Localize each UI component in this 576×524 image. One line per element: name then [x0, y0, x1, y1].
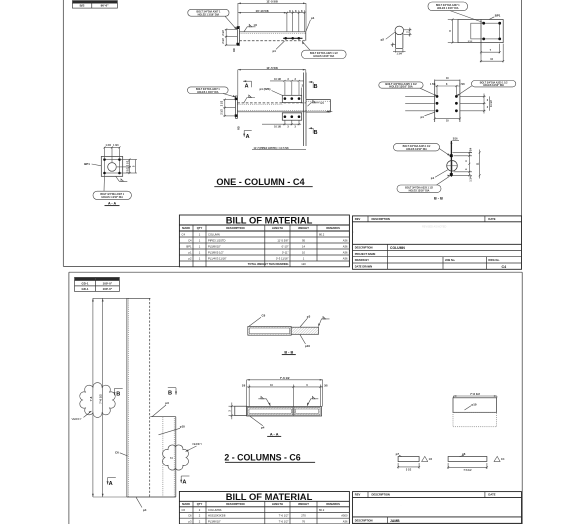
- dim row 2: [247, 386, 323, 388]
- svg-text:C6: C6: [115, 451, 119, 455]
- top dims: [435, 79, 460, 81]
- svg-text:B/S: B/S: [80, 4, 85, 8]
- column lines at right: [303, 73, 305, 147]
- bill of material table (sheet 2): [179, 491, 349, 524]
- svg-text:10: 10: [302, 250, 305, 254]
- callout bolt A325 bottom: [397, 185, 441, 192]
- svg-text:A500: A500: [341, 514, 348, 518]
- left dim chain: [221, 99, 241, 130]
- pipe circle: [395, 26, 404, 35]
- svg-text:REV: REV: [355, 217, 361, 221]
- svg-text:DESCRIPTION: DESCRIPTION: [226, 502, 244, 506]
- svg-text:DESCRIPTION: DESCRIPTION: [372, 493, 390, 497]
- title block (sheet 2): [353, 492, 522, 524]
- svg-text:MARK: MARK: [182, 226, 190, 230]
- bolts: [436, 95, 439, 98]
- pipe walls below: [395, 32, 397, 48]
- section mark A left: [107, 478, 116, 488]
- svg-text:HOLES 13/16" DIA: HOLES 13/16" DIA: [406, 148, 427, 151]
- svg-text:HOLES 1 3/16" DIA: HOLES 1 3/16" DIA: [198, 14, 220, 17]
- svg-text:BP1: BP1: [495, 13, 501, 17]
- dim right: [404, 29, 412, 31]
- svg-text:TOTAL WEIGHT THIS DRAWING: TOTAL WEIGHT THIS DRAWING: [248, 262, 289, 266]
- section B-B splice plate: [393, 138, 480, 201]
- svg-text:B - B: B - B: [434, 196, 443, 200]
- dim bottom 1 3/4: [391, 44, 396, 46]
- svg-text:1 5/8: 1 5/8: [430, 83, 436, 86]
- dimension 11'-5 5/8 overall: [238, 0, 306, 31]
- svg-text:p10: p10: [305, 344, 310, 348]
- svg-text:C4: C4: [182, 232, 186, 236]
- svg-text:A: A: [245, 83, 249, 89]
- svg-text:C6: C6: [182, 508, 186, 512]
- section B-B columns (sheet 2): [248, 314, 330, 355]
- svg-text:p2: p2: [381, 37, 385, 41]
- svg-text:COLUMN: COLUMN: [208, 232, 220, 236]
- svg-text:VERIFY: VERIFY: [72, 417, 82, 421]
- svg-text:GD-1: GD-1: [82, 287, 89, 291]
- plate p6 detail (bottom right): [447, 452, 505, 472]
- svg-text:76: 76: [302, 519, 305, 523]
- svg-text:HOLES 13/16" DIA: HOLES 13/16" DIA: [389, 85, 412, 89]
- svg-text:WEIGHT: WEIGHT: [298, 502, 309, 506]
- svg-text:2 1/2: 2 1/2: [126, 167, 129, 173]
- weld symbol right: [308, 100, 325, 106]
- svg-text:1 3/4: 1 3/4: [113, 144, 119, 147]
- weld symbol: [116, 177, 128, 182]
- svg-text:B: B: [168, 391, 172, 397]
- callout bolt A325 right: [456, 81, 515, 97]
- svg-text:HOLES 13/16" DIA: HOLES 13/16" DIA: [313, 55, 334, 58]
- svg-text:REVISED AS NOTED: REVISED AS NOTED: [422, 226, 447, 229]
- svg-text:p1: p1: [431, 176, 435, 180]
- weld symbols: [258, 399, 270, 406]
- pipe body (dashed top, solid bottom): [237, 102, 305, 104]
- top dims: [104, 147, 106, 158]
- svg-text:2: 2: [170, 457, 174, 459]
- end plate BP1 (side): [237, 26, 239, 45]
- svg-text:BILL OF MATERIAL: BILL OF MATERIAL: [226, 491, 313, 502]
- svg-text:JOB No.: JOB No.: [445, 258, 456, 262]
- svg-text:p7: p7: [396, 452, 400, 456]
- svg-text:p2: p2: [189, 256, 192, 260]
- svg-text:14: 14: [302, 244, 305, 248]
- svg-text:COLUMN: COLUMN: [390, 246, 405, 250]
- svg-text:7'-6 1/2: 7'-6 1/2: [470, 392, 480, 396]
- svg-text:p1 (N/S): p1 (N/S): [260, 87, 271, 91]
- title 2 - COLUMNS - C6: [224, 453, 315, 463]
- plate edge view: [450, 141, 452, 177]
- column C4 elevation (top drawing): [188, 0, 346, 59]
- sheet 2 right border: [521, 272, 523, 524]
- svg-text:2 1/2: 2 1/2: [222, 38, 225, 44]
- sheet 1 location table: [72, 1, 117, 9]
- svg-text:HSS10X3X3/8: HSS10X3X3/8: [208, 514, 226, 518]
- dimension 7'-6 1/2: [247, 379, 323, 381]
- base plate BP1 plan detail: [428, 2, 504, 62]
- svg-text:B - B: B - B: [284, 350, 293, 354]
- svg-text:80.2: 80.2: [319, 508, 325, 512]
- svg-text:A: A: [182, 480, 186, 486]
- svg-text:p10: p10: [472, 403, 477, 407]
- svg-text:B: B: [314, 130, 318, 136]
- svg-text:MARK: MARK: [182, 502, 190, 506]
- svg-text:0'-3 11/16": 0'-3 11/16": [276, 256, 289, 260]
- pipe circle: [108, 163, 117, 172]
- svg-text:11'-5 5/8": 11'-5 5/8": [277, 238, 288, 242]
- svg-text:100'-0": 100'-0": [103, 287, 113, 291]
- callout bolt A307 (left): [188, 9, 237, 29]
- column centerline: [480, 20, 482, 55]
- bolts (side view): [283, 37, 302, 39]
- section A-A columns (sheet 2): [229, 376, 329, 436]
- svg-text:WEIGHT: WEIGHT: [298, 226, 309, 230]
- columns C6 elevation: [72, 298, 203, 512]
- splice plate bottom: [282, 113, 301, 120]
- HSS column section: [248, 327, 291, 336]
- svg-text:DATE: DATE: [488, 217, 495, 221]
- HSS tubes hatched: [248, 407, 293, 415]
- dimension 10'-10 5/8 and 3|3|3: [238, 9, 306, 32]
- svg-text:80.2: 80.2: [319, 232, 325, 236]
- svg-text:A: A: [246, 134, 250, 140]
- revision cloud right: [163, 445, 189, 470]
- plate: [101, 157, 122, 177]
- svg-text:REMARKS: REMARKS: [326, 226, 340, 230]
- plate p7 detail (bottom left of right group): [396, 452, 433, 472]
- svg-text:7'-6 1/2: 7'-6 1/2: [99, 394, 103, 404]
- sheet 1 left border: [62, 0, 64, 266]
- flange lines left: [405, 95, 435, 97]
- svg-text:0'-10": 0'-10": [282, 244, 289, 248]
- svg-text:HOLES 13/16" DIA: HOLES 13/16" DIA: [409, 189, 430, 192]
- right dim chain: [483, 94, 485, 114]
- revision cloud left: [80, 383, 116, 418]
- svg-text:7'-6 1/2: 7'-6 1/2: [463, 469, 472, 472]
- sheet 1 right border: [521, 0, 523, 216]
- svg-text:p4: p4: [261, 426, 265, 430]
- plate outline: [458, 20, 503, 43]
- svg-text:120: 120: [301, 262, 306, 266]
- svg-text:GD-1: GD-1: [82, 282, 89, 286]
- sheet 2 location table: [75, 277, 120, 291]
- svg-text:p3: p3: [165, 401, 169, 405]
- svg-text:HOLES 1 3/16" DIA: HOLES 1 3/16" DIA: [437, 7, 459, 10]
- svg-text:270: 270: [301, 514, 306, 518]
- svg-text:7'-6 1/2": 7'-6 1/2": [279, 514, 289, 518]
- svg-text:2 1/2: 2 1/2: [222, 30, 225, 36]
- svg-text:JAMB: JAMB: [390, 519, 400, 523]
- svg-text:96'-6": 96'-6": [101, 4, 109, 8]
- svg-text:QTY: QTY: [197, 502, 203, 506]
- svg-text:REMARKS: REMARKS: [326, 502, 340, 506]
- svg-text:A - A: A - A: [108, 202, 117, 206]
- end plate left: [236, 96, 238, 118]
- splice plate top: [282, 95, 301, 102]
- svg-text:7'-6 1/2: 7'-6 1/2: [280, 376, 290, 380]
- svg-text:p10: p10: [180, 425, 185, 429]
- svg-text:10 1/8: 10 1/8: [274, 78, 281, 81]
- section mark B bottom: [309, 127, 318, 136]
- callout bolt A307: [428, 2, 468, 11]
- svg-text:7'-6: 7'-6: [89, 396, 93, 401]
- svg-text:A: A: [109, 481, 113, 487]
- svg-text:2 1/2: 2 1/2: [221, 100, 224, 106]
- weld symbol: [244, 24, 258, 32]
- plate p10 detail (right): [453, 392, 497, 427]
- callout bolt A325 top: [393, 144, 439, 151]
- svg-text:p1: p1: [189, 250, 192, 254]
- svg-text:DATE: DATE: [488, 493, 495, 497]
- bolts: [450, 154, 453, 157]
- svg-text:p1: p1: [273, 49, 277, 53]
- plate p2 detail (pipe cap): [381, 26, 412, 56]
- svg-text:HOLES 1 3/16" DIA: HOLES 1 3/16" DIA: [197, 91, 219, 94]
- bolt pattern: [471, 23, 500, 39]
- svg-text:DRAWN BY: DRAWN BY: [355, 258, 369, 262]
- svg-text:VERIFY: VERIFY: [192, 442, 202, 446]
- svg-text:DESCRIPTION: DESCRIPTION: [372, 217, 390, 221]
- svg-text:B: B: [314, 84, 318, 90]
- bar body: [247, 407, 322, 417]
- right dims: [453, 151, 473, 153]
- column 2 body (stepped): [150, 416, 175, 418]
- svg-text:1 3/4: 1 3/4: [106, 144, 112, 147]
- svg-text:B: B: [116, 391, 120, 397]
- svg-text:DWG No.: DWG No.: [488, 258, 500, 262]
- svg-text:RD: RD: [238, 126, 241, 130]
- svg-text:2 1/2: 2 1/2: [221, 109, 224, 115]
- svg-text:p3: p3: [189, 519, 192, 523]
- callout bolt A307: [93, 191, 131, 199]
- title block (sheet 1): [353, 216, 522, 269]
- svg-text:PL5/8X10": PL5/8X10": [208, 244, 221, 248]
- section mark A top: [243, 80, 252, 89]
- svg-text:ONE - COLUMN - C4: ONE - COLUMN - C4: [216, 177, 305, 187]
- svg-text:C6: C6: [262, 314, 266, 318]
- section mark A right: [180, 476, 189, 486]
- svg-text:PL3/8X10": PL3/8X10": [208, 519, 221, 523]
- svg-text:BP1: BP1: [186, 244, 192, 248]
- svg-text:DESCRIPTION: DESCRIPTION: [355, 246, 373, 250]
- section mark B left: [114, 388, 123, 397]
- svg-text:LENGTH: LENGTH: [272, 226, 283, 230]
- svg-text:QTY: QTY: [197, 226, 203, 230]
- svg-text:A36: A36: [343, 238, 348, 242]
- svg-text:A - A: A - A: [270, 432, 279, 436]
- svg-text:10'-10 5/8: 10'-10 5/8: [256, 9, 269, 13]
- svg-text:DESCRIPTION: DESCRIPTION: [226, 226, 244, 230]
- svg-text:11'-5 5/8: 11'-5 5/8: [266, 0, 278, 4]
- svg-text:A36: A36: [343, 256, 348, 260]
- bolt pattern: [105, 160, 120, 174]
- splice bolt plan detail: [379, 77, 516, 122]
- bill of material table (sheet 1): [179, 214, 349, 266]
- svg-text:1 3/4: 1 3/4: [397, 53, 403, 56]
- pipe circle: [447, 161, 458, 172]
- callout bolt A325 (bottom right): [302, 41, 347, 58]
- svg-text:A36: A36: [343, 250, 348, 254]
- svg-text:0'-11": 0'-11": [282, 250, 289, 254]
- svg-text:100'-0": 100'-0": [103, 282, 113, 286]
- svg-text:PROJECT NAME: PROJECT NAME: [355, 252, 376, 256]
- svg-text:11 1/2: 11 1/2: [490, 100, 493, 107]
- callout bolt A307 left: [188, 87, 236, 97]
- left dimension chain: [222, 28, 237, 51]
- flange lines right: [460, 95, 486, 97]
- dimension 11'-5 5/8: [238, 69, 306, 71]
- svg-text:p1: p1: [421, 115, 425, 119]
- dim chain below splice: [262, 120, 301, 128]
- svg-text:C4: C4: [188, 238, 192, 242]
- beam W12X26 elevation with splice (middle drawing): [188, 66, 333, 150]
- svg-text:2 - COLUMNS - C6: 2 - COLUMNS - C6: [224, 453, 300, 463]
- svg-text:7'-6 1/2": 7'-6 1/2": [279, 519, 289, 523]
- svg-text:DESCRIPTION: DESCRIPTION: [355, 518, 373, 522]
- weld symbol: [319, 319, 330, 327]
- column 1 body: [127, 297, 150, 299]
- svg-text:COLUMNS: COLUMNS: [208, 508, 222, 512]
- section mark A bottom: [243, 131, 252, 141]
- svg-text:REV: REV: [355, 493, 361, 497]
- label p4 bottom: [136, 497, 142, 507]
- sheet 1 bottom border: [63, 265, 179, 267]
- left dims: [229, 405, 235, 407]
- svg-text:3 1/2: 3 1/2: [406, 469, 412, 472]
- svg-text:LENGTH: LENGTH: [272, 502, 283, 506]
- svg-text:11'-5 5/8: 11'-5 5/8: [266, 66, 278, 70]
- title ONE - COLUMN - C4: [214, 177, 312, 187]
- beam edges: [434, 80, 436, 123]
- svg-text:2 1/2: 2 1/2: [126, 160, 129, 166]
- dim left 8: [448, 19, 458, 21]
- bottom dim: [435, 118, 460, 120]
- svg-text:1 3/4: 1 3/4: [470, 176, 473, 182]
- right dims: [121, 159, 137, 161]
- svg-text:10 1/8: 10 1/8: [274, 126, 281, 129]
- overall height dimension lines: [93, 297, 127, 299]
- svg-text:p3: p3: [307, 315, 311, 319]
- svg-text:HOLES 13/16" DIA: HOLES 13/16" DIA: [483, 84, 504, 87]
- section mark B right: [168, 388, 177, 397]
- svg-text:p4: p4: [143, 508, 147, 512]
- svg-text:A36: A36: [343, 519, 348, 523]
- pipe column body: [239, 31, 305, 33]
- plate p3 section: [291, 327, 318, 334]
- svg-text:BILL OF MATERIAL: BILL OF MATERIAL: [226, 214, 313, 225]
- svg-text:BP1: BP1: [84, 162, 90, 166]
- sheet 2 top border: [69, 271, 522, 273]
- svg-text:1 3/4: 1 3/4: [470, 147, 473, 153]
- dim chain above splice: [270, 78, 304, 95]
- weld symbol left: [244, 95, 255, 103]
- svg-text:C4: C4: [502, 265, 507, 269]
- section A-A base plate: [84, 144, 137, 206]
- existing beam stub right: [306, 100, 332, 113]
- svg-text:95: 95: [302, 238, 305, 242]
- svg-text:p1: p1: [311, 16, 315, 20]
- svg-text:1 5/8: 1 5/8: [459, 83, 465, 86]
- svg-text:PL3/8X5 1/2": PL3/8X5 1/2": [208, 250, 224, 254]
- end plate left: [235, 406, 247, 415]
- svg-text:PIPE3 1/2STD: PIPE3 1/2STD: [208, 238, 226, 242]
- svg-text:A36: A36: [343, 244, 348, 248]
- svg-text:HOLES 1 3/16" DIA: HOLES 1 3/16" DIA: [101, 196, 123, 199]
- svg-text:. .: . .: [400, 504, 402, 507]
- svg-text:DATE DRAWN: DATE DRAWN: [355, 265, 373, 269]
- svg-text:C6: C6: [188, 514, 192, 518]
- svg-text:RD: RD: [233, 48, 236, 52]
- callout bolt A325 left: [379, 82, 437, 97]
- sheet 2 left border: [68, 272, 70, 524]
- section mark B top: [309, 81, 318, 90]
- svg-text:PL1/4X3 11/16": PL1/4X3 11/16": [208, 256, 227, 260]
